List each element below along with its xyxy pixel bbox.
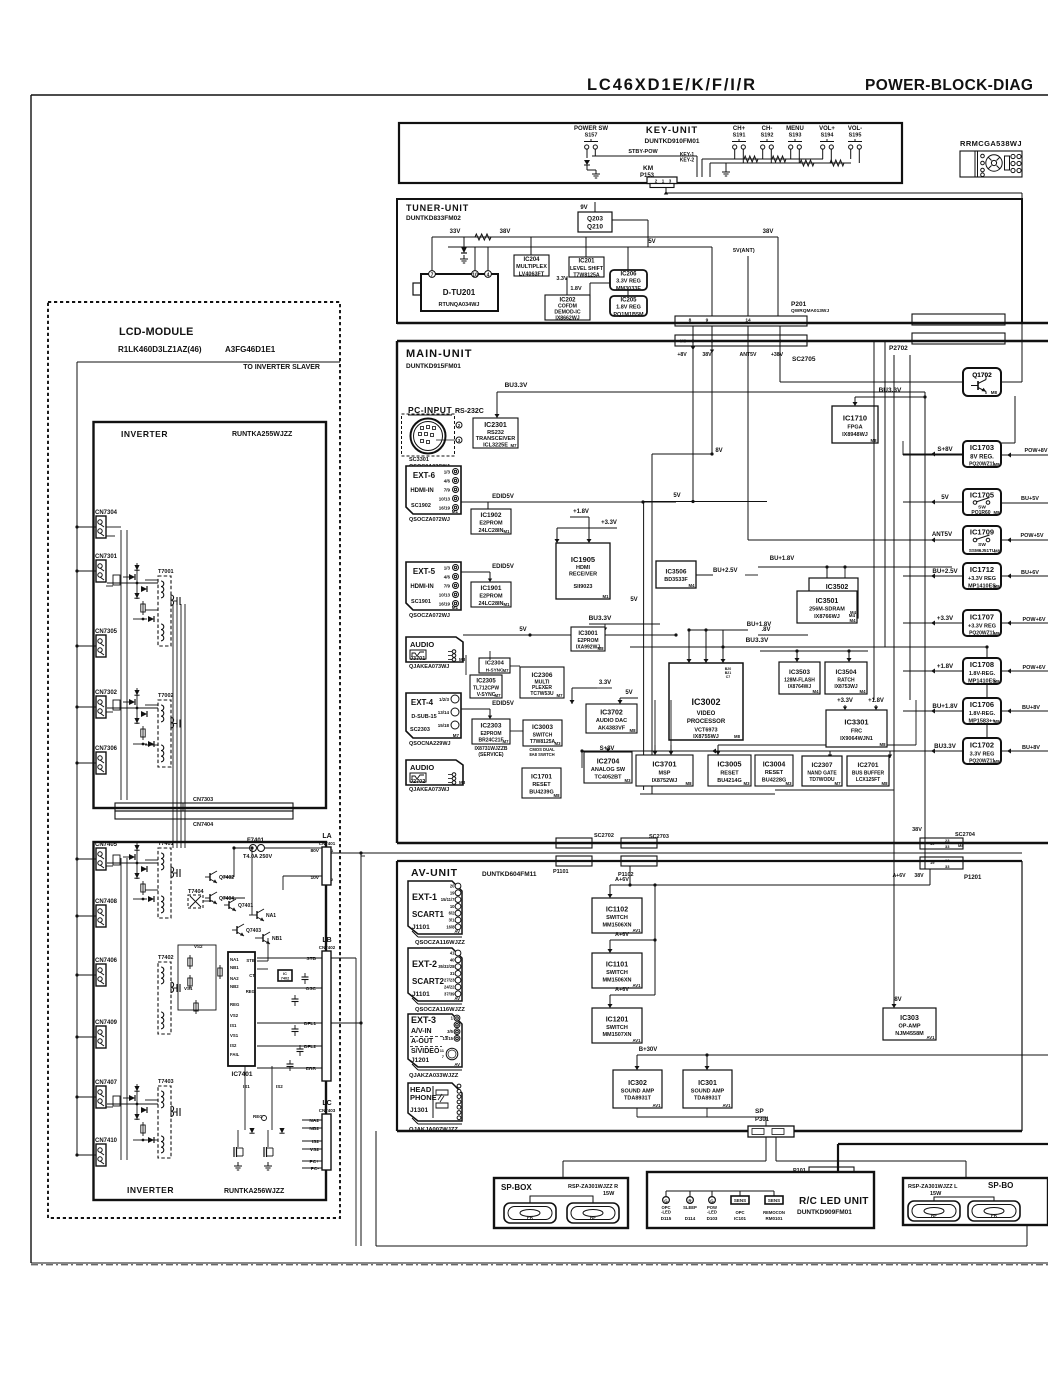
svg-text:M7: M7 <box>503 739 510 744</box>
svg-text:POW+6V: POW+6V <box>1022 665 1045 671</box>
resistor 33V-38V <box>475 234 491 240</box>
svg-text:SOUND AMP: SOUND AMP <box>621 1089 655 1095</box>
wire STBY-POW to KM <box>592 155 697 157</box>
svg-text:M8: M8 <box>994 549 1001 554</box>
resistor sense 220 <box>219 965 221 979</box>
svg-text:NB2: NB2 <box>230 984 239 989</box>
svg-text:BU3.3V: BU3.3V <box>505 382 528 389</box>
IC2301 RS232 transceiver <box>473 418 518 449</box>
wire to IC3701 b <box>670 745 672 755</box>
svg-text:CN7408: CN7408 <box>95 899 118 905</box>
svg-text:RESET: RESET <box>720 771 739 777</box>
capacitor inverter 295,1000 <box>292 995 299 1006</box>
connector SC2705 strip <box>675 335 807 346</box>
wire bus v2 <box>884 341 886 647</box>
svg-text:14: 14 <box>745 318 751 324</box>
svg-text:SP-BOX: SP-BOX <box>501 1183 532 1192</box>
wire +3.3V <box>598 527 617 529</box>
svg-text:STBY-POW: STBY-POW <box>628 149 658 155</box>
svg-text:MP1410ES: MP1410ES <box>968 678 996 684</box>
svg-text:RESET: RESET <box>765 770 784 776</box>
svg-text:AK4383VF: AK4383VF <box>598 725 626 731</box>
svg-text:J3701: J3701 <box>410 656 425 662</box>
svg-text:BU+8V: BU+8V <box>1022 745 1040 751</box>
svg-text:SCART2: SCART2 <box>412 977 445 986</box>
wire flash supply <box>758 634 808 636</box>
svg-text:M4: M4 <box>850 618 857 623</box>
svg-text:IC3504: IC3504 <box>836 669 857 676</box>
svg-text:M3: M3 <box>744 781 751 786</box>
wire 5V down to P201 <box>711 247 713 316</box>
svg-text:4/6: 4/6 <box>444 575 451 580</box>
svg-text:IX8753WJ: IX8753WJ <box>834 684 858 690</box>
svg-text:REMOCON: REMOCON <box>763 1210 785 1215</box>
svg-text:QJAKEA073WJ: QJAKEA073WJ <box>409 664 449 670</box>
svg-text:+38V: +38V <box>771 352 784 358</box>
wire ANT5V vertical <box>747 326 749 540</box>
svg-text:-LED: -LED <box>661 1210 671 1215</box>
svg-text:IC7401: IC7401 <box>232 1071 253 1078</box>
svg-text:NA1: NA1 <box>266 913 276 919</box>
wire 38V vertical <box>711 326 713 454</box>
wire key switch left pin <box>822 149 824 159</box>
svg-text:PC-: PC- <box>311 1166 320 1172</box>
svg-text:M4: M4 <box>849 613 856 618</box>
wire bus to CN7409 <box>77 1036 96 1038</box>
svg-text:8V: 8V <box>715 448 722 454</box>
svg-text:4: 4 <box>487 272 490 278</box>
svg-text:+3.3V REG: +3.3V REG <box>968 576 996 582</box>
wire inverter secondary vertical <box>184 604 186 811</box>
svg-text:8A8 SWITCH: 8A8 SWITCH <box>529 752 554 757</box>
wire strip to T7401 <box>172 811 174 848</box>
INVERTER master board outline <box>94 422 327 808</box>
svg-text:4/6: 4/6 <box>444 479 451 484</box>
svg-text:PROCESSOR: PROCESSOR <box>687 719 726 725</box>
wire bus to CN7305 <box>77 645 96 647</box>
svg-text:IC1702: IC1702 <box>970 740 994 749</box>
tuner D-TU201 <box>413 271 498 311</box>
connector EXT-5 HDMI SC1901 <box>406 562 461 610</box>
svg-text:IC2304: IC2304 <box>485 661 504 667</box>
svg-text:5V: 5V <box>648 239 655 245</box>
wire BU+2.5V <box>696 574 713 576</box>
sensor RM0101 <box>763 1191 785 1221</box>
svg-text:IX8755WJ: IX8755WJ <box>693 734 719 740</box>
svg-text:F7401: F7401 <box>247 838 265 844</box>
MAIN-UNIT top border / bus <box>397 340 1048 342</box>
svg-text:+1.8V: +1.8V <box>573 509 589 515</box>
svg-text:IC3501: IC3501 <box>816 598 839 605</box>
svg-text:POWER-BLOCK-DIAG: POWER-BLOCK-DIAG <box>865 77 1033 94</box>
svg-text:IS2: IS2 <box>276 1084 283 1089</box>
connector P153 <box>647 177 677 184</box>
wire BU+2.5V <box>903 575 963 577</box>
wire down to bottom <box>360 1023 362 1246</box>
wire LC IS2 <box>302 1140 322 1142</box>
wire BU+8V in <box>1001 710 1048 712</box>
svg-text:MM3033E: MM3033E <box>616 286 641 292</box>
ground below S157 <box>592 170 600 178</box>
svg-text:IC1712: IC1712 <box>970 565 994 574</box>
svg-text:M8: M8 <box>994 679 1001 684</box>
wire vertical x643 <box>643 502 645 791</box>
svg-text:M1: M1 <box>452 605 459 610</box>
svg-text:QJAKZA033WJZZ: QJAKZA033WJZZ <box>409 1073 459 1079</box>
AV-UNIT top border <box>397 860 1022 862</box>
svg-text:M1: M1 <box>603 594 610 599</box>
wire DFL1 out <box>331 1022 361 1024</box>
connector SC2704 <box>920 838 963 849</box>
svg-text:EXT-2: EXT-2 <box>412 959 437 969</box>
connector LB CN7402 <box>322 951 331 1081</box>
svg-text:B+30V: B+30V <box>639 1047 658 1053</box>
wire AV to bottom rail <box>375 1131 377 1246</box>
wire IC2303-IC3003 <box>510 730 523 732</box>
svg-text:MM1507XN: MM1507XN <box>602 1032 631 1038</box>
svg-text:RTUNQA034WJ: RTUNQA034WJ <box>439 302 480 308</box>
svg-text:IC: IC <box>283 972 287 976</box>
wire to IC201 <box>585 237 587 257</box>
svg-text:IC1705: IC1705 <box>970 491 994 500</box>
svg-text:NA2: NA2 <box>230 976 239 981</box>
wire 38V down to P201 <box>777 237 779 316</box>
svg-text:POWER SW: POWER SW <box>574 126 608 132</box>
wire key switch right pin <box>858 149 860 163</box>
svg-text:SWITCH: SWITCH <box>533 732 553 738</box>
fuse F7401 <box>234 838 310 860</box>
resistor key ladder <box>830 160 844 166</box>
svg-text:VOL+: VOL+ <box>819 126 835 132</box>
wire inverter2 bus x127 <box>126 858 128 1160</box>
ground KEY bus <box>722 168 730 176</box>
wire +3.3V <box>903 622 963 624</box>
svg-text:8: 8 <box>689 318 692 324</box>
wire BU3.3V fpga <box>855 396 925 398</box>
svg-text:M8: M8 <box>686 781 693 786</box>
svg-text:H-SYNC: H-SYNC <box>486 668 504 673</box>
IC1706 1.8V regulator <box>963 698 1001 724</box>
wire backlight feed from right <box>361 855 365 857</box>
connector LC CN7403 <box>322 1114 331 1170</box>
svg-text:IC303: IC303 <box>900 1015 919 1022</box>
svg-text:A+6V: A+6V <box>615 877 629 883</box>
wire BU3.3V <box>903 750 963 752</box>
svg-text:8V REG.: 8V REG. <box>970 454 994 460</box>
svg-text:+8V: +8V <box>677 352 687 358</box>
svg-text:PQ20WZ11: PQ20WZ11 <box>969 630 995 636</box>
svg-text:G: G <box>664 1198 668 1203</box>
sensor IC101 <box>731 1191 749 1221</box>
wire S+8V <box>903 453 963 455</box>
wire bus v4 <box>909 355 911 700</box>
wire DFL1 <box>257 1022 322 1024</box>
svg-text:KM: KM <box>643 165 653 172</box>
svg-text:10: 10 <box>472 272 478 278</box>
IC1708 1.8V regulator <box>963 658 1001 684</box>
svg-text:SC1902: SC1902 <box>411 503 431 509</box>
wire ERR <box>257 1067 322 1069</box>
svg-text:ANALOG SW: ANALOG SW <box>591 767 626 773</box>
svg-text:QJAKJA007WJZZ: QJAKJA007WJZZ <box>409 1127 458 1133</box>
svg-text:P2702: P2702 <box>889 345 908 352</box>
svg-text:(SERVICE): (SERVICE) <box>478 752 504 758</box>
wire LC NA2 <box>302 1119 322 1121</box>
wire IC302 out <box>636 1108 638 1117</box>
connector P1101 <box>556 856 592 866</box>
IC302 sound amp <box>613 1070 662 1108</box>
svg-text:OSC: OSC <box>306 986 317 992</box>
IC3701 MSP audio <box>636 755 693 786</box>
svg-text:IC1902: IC1902 <box>481 512 502 519</box>
wire key switch right pin <box>742 149 744 163</box>
svg-text:13/14: 13/14 <box>438 710 450 715</box>
svg-text:IC2307: IC2307 <box>812 762 833 769</box>
MAIN-UNIT bottom border <box>397 842 1048 844</box>
svg-text:256M-SDRAM: 256M-SDRAM <box>809 607 845 613</box>
svg-text:T7W8125A: T7W8125A <box>573 273 599 279</box>
svg-text:EXT-5: EXT-5 <box>413 567 436 576</box>
svg-text:SC2702: SC2702 <box>594 833 614 839</box>
svg-text:BU+6V: BU+6V <box>1021 570 1039 576</box>
sense network box <box>178 945 216 1010</box>
svg-text:RATCH: RATCH <box>837 677 855 683</box>
wire power to P101 from right edge <box>838 1143 1048 1145</box>
svg-text:IC3001: IC3001 <box>578 631 598 637</box>
svg-text:MSP: MSP <box>659 771 671 777</box>
zener diode tuner AGC <box>461 237 467 253</box>
svg-text:J2702: J2702 <box>410 779 425 785</box>
connector CN7301 <box>95 554 118 582</box>
wire STBY-POW down to P153 <box>696 156 698 177</box>
ground FET A <box>234 1162 242 1170</box>
svg-text:35/32/28: 35/32/28 <box>438 964 455 969</box>
svg-text:T4.0A 250V: T4.0A 250V <box>243 854 272 860</box>
wire B+30V rail <box>637 1054 1048 1056</box>
wire strip to T7401 <box>176 811 178 848</box>
connector EXT-1 SCART1 <box>408 881 462 937</box>
svg-text:QSOCNA229WJ: QSOCNA229WJ <box>409 741 451 747</box>
TUNER-UNIT bottom border / bus <box>397 322 1048 324</box>
IC205 1.8V regulator <box>610 296 647 318</box>
wire to IC2701 <box>889 751 891 758</box>
svg-text:24LC28IN: 24LC28IN <box>478 601 503 607</box>
svg-text:AUDIO DAC: AUDIO DAC <box>596 718 627 724</box>
svg-text:10/13: 10/13 <box>439 497 451 502</box>
svg-text:SII9023: SII9023 <box>574 584 593 590</box>
svg-text:24LC28IN: 24LC28IN <box>478 528 503 534</box>
wire BU+5V in <box>1001 502 1048 504</box>
wire A+6V 3 <box>610 994 655 996</box>
wire inverter1 bus x121 <box>120 530 122 800</box>
AV-UNIT right border <box>1021 861 1023 1131</box>
wire to IC3005 <box>717 745 719 755</box>
svg-text:HDMI-IN: HDMI-IN <box>410 584 433 590</box>
svg-text:FAIL: FAIL <box>230 1052 240 1057</box>
IC3502 SDRAM <box>809 578 858 618</box>
svg-text:DUNTKD604FM11: DUNTKD604FM11 <box>482 871 537 878</box>
resistor key ladder <box>800 160 814 166</box>
svg-text:LCX125FT: LCX125FT <box>856 777 880 783</box>
IC3504 latch <box>825 662 867 694</box>
svg-text:1.8V REG: 1.8V REG <box>616 305 641 311</box>
svg-text:STB: STB <box>306 956 316 962</box>
IC3503 flash memory <box>779 662 820 694</box>
svg-text:AV: AV <box>454 1062 460 1067</box>
svg-text:D-SUB-15: D-SUB-15 <box>411 714 436 720</box>
wire LC PC- <box>302 1167 322 1169</box>
svg-text:CN7402: CN7402 <box>319 945 336 950</box>
svg-text:ICL3225E: ICL3225E <box>483 443 508 449</box>
svg-text:NAND GATE: NAND GATE <box>807 770 837 776</box>
svg-text:1/3: 1/3 <box>444 470 451 475</box>
svg-text:RF: RF <box>590 1215 596 1220</box>
svg-text:LB: LB <box>322 937 331 944</box>
wire 10V to LA <box>283 875 322 877</box>
svg-text:A+6V: A+6V <box>615 987 629 993</box>
wire right speaker feed <box>776 1160 966 1162</box>
svg-text:M7: M7 <box>495 693 502 698</box>
wire +1.8V <box>903 670 963 672</box>
svg-text:QSOCZA072WJ: QSOCZA072WJ <box>409 517 450 523</box>
svg-text:VIDEO: VIDEO <box>697 711 716 717</box>
svg-text:CN7302: CN7302 <box>95 690 118 696</box>
svg-text:23: 23 <box>945 858 950 863</box>
svg-text:D-TU201: D-TU201 <box>443 288 476 297</box>
svg-text:S192: S192 <box>761 133 774 139</box>
svg-text:SLEEP: SLEEP <box>683 1205 697 1210</box>
IC3501 SDRAM <box>797 591 857 623</box>
wire DFL2 <box>257 1045 322 1047</box>
wire STB out <box>331 957 356 959</box>
connector P101 strip <box>809 1167 854 1180</box>
svg-text:MENU: MENU <box>786 126 804 132</box>
svg-text:20: 20 <box>450 884 455 889</box>
svg-text:INVERTER: INVERTER <box>127 1185 174 1195</box>
connector EXT-3 AV in <box>408 1014 462 1070</box>
IC1201 switch <box>592 1008 642 1043</box>
svg-text:7402: 7402 <box>281 977 289 981</box>
wire bus to CN7408 <box>77 915 96 917</box>
svg-text:V-SYNC: V-SYNC <box>477 692 496 698</box>
svg-text:M4: M4 <box>689 583 696 588</box>
wire bus to CN7406 <box>77 974 96 976</box>
wire 38V rail <box>440 236 778 238</box>
svg-text:SENS: SENS <box>734 1198 746 1203</box>
svg-text:E2PROM: E2PROM <box>479 594 503 600</box>
wire BU3.3V to IC3004 col <box>986 647 988 755</box>
svg-text:CN7306: CN7306 <box>95 746 118 752</box>
svg-text:S157: S157 <box>585 133 598 139</box>
wire IC301 out <box>706 1108 708 1117</box>
transistor Q1702 <box>963 368 1001 396</box>
arrow +8V <box>691 347 695 351</box>
svg-text:LV4063FT: LV4063FT <box>519 271 545 277</box>
wire bus to CN7410 <box>77 1154 96 1156</box>
wire vp supply 1 <box>688 630 690 663</box>
wire left bus vertical <box>76 362 78 1155</box>
wire POW+5V in <box>1001 539 1048 541</box>
svg-text:IX8752WJ: IX8752WJ <box>652 778 678 784</box>
svg-text:IC302: IC302 <box>628 1080 647 1087</box>
wire BU+6V in <box>1001 575 1048 577</box>
IC1102 switch <box>592 898 642 933</box>
svg-text:BU4214G: BU4214G <box>717 778 741 784</box>
wire +38V vertical <box>779 326 781 382</box>
svg-text:10: 10 <box>450 904 455 909</box>
capacitor inverter 305,978 <box>302 973 309 984</box>
wire IC206 left <box>590 282 610 284</box>
svg-text:SC3301: SC3301 <box>409 457 429 463</box>
svg-text:IC1701: IC1701 <box>531 774 552 781</box>
svg-text:R1LK460D3LZ1AZ(46): R1LK460D3LZ1AZ(46) <box>118 345 202 354</box>
wire P153 to right edge <box>666 192 1022 194</box>
svg-text:SP: SP <box>755 1108 764 1115</box>
wire CN7304 pin2 <box>106 535 115 537</box>
svg-text:A/V-IN: A/V-IN <box>411 1028 432 1035</box>
svg-text:BU3.3V: BU3.3V <box>746 637 769 644</box>
svg-text:CT: CT <box>249 973 255 978</box>
svg-text:EXT-3: EXT-3 <box>411 1015 436 1025</box>
svg-text:38V: 38V <box>914 873 924 879</box>
svg-text:IC1706: IC1706 <box>970 700 994 709</box>
svg-text:M1: M1 <box>504 529 511 534</box>
svg-text:RF: RF <box>931 1213 937 1218</box>
svg-text:M7: M7 <box>835 781 842 786</box>
svg-text:LA: LA <box>322 833 331 840</box>
svg-text:IC3005: IC3005 <box>717 760 741 769</box>
wire BU+8V 2 in <box>1001 750 1048 752</box>
svg-text:CN7304: CN7304 <box>95 510 118 516</box>
svg-text:M8: M8 <box>882 781 889 786</box>
svg-text:IS1: IS1 <box>243 1084 250 1089</box>
svg-text:IC1102: IC1102 <box>606 906 628 913</box>
svg-text:P201: P201 <box>791 301 807 308</box>
svg-text:IC2303: IC2303 <box>481 723 502 730</box>
wire EDID5V to IC1902 <box>487 502 489 509</box>
svg-text:33: 33 <box>945 864 950 869</box>
svg-text:M8: M8 <box>994 510 1001 515</box>
svg-text:6/2: 6/2 <box>449 911 455 916</box>
svg-text:3.3V REG: 3.3V REG <box>970 751 995 757</box>
svg-text:OPC: OPC <box>735 1210 744 1215</box>
wire inverter secondary vertical <box>176 604 178 811</box>
svg-text:T7002: T7002 <box>158 693 174 699</box>
wire Q1702 out right <box>1001 381 1022 383</box>
svg-text:T7403: T7403 <box>158 1079 174 1085</box>
wire IC206 to IC205 <box>627 290 629 296</box>
svg-text:BU3.3V: BU3.3V <box>934 743 957 750</box>
svg-text:QSOCZA116WJZZ: QSOCZA116WJZZ <box>415 940 465 946</box>
wire to tuner pin4 <box>487 247 489 271</box>
svg-text:BD3533F: BD3533F <box>664 577 688 583</box>
IC2701 bus buffer <box>847 756 889 786</box>
svg-text:S191: S191 <box>733 133 746 139</box>
wire ANT5V to IC1709 <box>748 539 903 541</box>
connector SC2703 <box>621 838 657 848</box>
wire bus to CN7301 <box>77 570 96 572</box>
IC204 multiplexer <box>514 255 549 277</box>
wire strip to T7401 <box>184 811 186 848</box>
connector EXT-6 HDMI SC1902 <box>406 466 461 514</box>
svg-text:BU+2.5V: BU+2.5V <box>713 568 738 574</box>
svg-text:KEY-2: KEY-2 <box>680 158 695 164</box>
svg-text:CN7405: CN7405 <box>95 842 118 848</box>
svg-text:23: 23 <box>945 838 950 843</box>
svg-text:BU3.3V: BU3.3V <box>879 387 902 394</box>
svg-text:TC4052BT: TC4052BT <box>595 774 623 780</box>
svg-text:M8: M8 <box>994 584 1001 589</box>
